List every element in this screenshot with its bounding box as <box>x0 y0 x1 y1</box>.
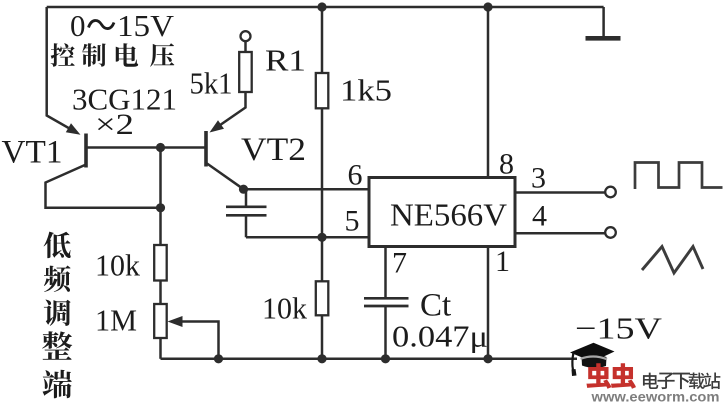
transistor VT2 <box>204 131 208 167</box>
wire 10k to 1M <box>159 281 162 305</box>
wire pin 8 from top rail <box>487 7 490 178</box>
label 控制电压 control voltage <box>51 43 75 66</box>
ground <box>602 7 605 36</box>
wire bottom rail -15V <box>161 358 578 361</box>
svg-text:4: 4 <box>532 200 547 233</box>
svg-text:0.047μ: 0.047μ <box>392 319 488 354</box>
potentiometer 1M <box>154 304 167 338</box>
svg-text:15V: 15V <box>117 8 175 43</box>
wire 1M wiper <box>182 322 219 359</box>
svg-text:NE566V: NE566V <box>390 196 507 232</box>
svg-text:1k5: 1k5 <box>340 73 392 108</box>
svg-text:1: 1 <box>495 245 510 278</box>
resistor 10k left <box>154 245 167 281</box>
resistor R1 5k1 <box>239 52 252 92</box>
triangle wave symbol <box>642 247 703 274</box>
wire top rail 0~15V <box>47 6 604 9</box>
svg-text:5k1: 5k1 <box>190 66 233 101</box>
wire 1k5 down across pin6 to pin5 and 10k <box>321 108 324 281</box>
wire pin 1 to rail <box>487 247 490 359</box>
wire R1 to VT2 emitter <box>217 92 246 128</box>
svg-text:VT2: VT2 <box>241 132 306 168</box>
node wiper to rail <box>214 354 223 363</box>
wire pin 7 to Ct <box>384 247 387 298</box>
wire base junction down <box>159 148 162 246</box>
node pin8 top rail <box>483 2 492 11</box>
resistor 10k right <box>316 281 329 315</box>
svg-text:8: 8 <box>499 148 514 181</box>
wire pin 3 output <box>515 191 605 194</box>
wire pin 4 output <box>515 232 605 235</box>
watermark 电子下载站 <box>643 373 658 389</box>
node collector junction <box>156 203 165 212</box>
wire VT1/VT2 base line <box>86 146 205 149</box>
wire mid vertical from top rail <box>321 7 324 73</box>
terminal circle pin4 <box>605 227 616 238</box>
capacitor between pin6 and pin5 lines <box>245 189 248 205</box>
terminal circle pin3 <box>605 187 616 198</box>
svg-text:5: 5 <box>345 205 360 238</box>
label 低频调整端 low-frequency adjust <box>44 232 71 258</box>
node VT2 emitter junction <box>239 185 248 194</box>
wire 10k right to rail <box>321 315 324 359</box>
resistor 1k5 <box>316 73 329 108</box>
wire 1M bottom to rail <box>159 338 162 359</box>
wire to pin 6 <box>244 188 370 191</box>
node pin1 rail <box>483 354 492 363</box>
svg-text:10k: 10k <box>262 291 307 326</box>
svg-text:×2: ×2 <box>95 108 134 141</box>
node top rail mid <box>317 2 326 11</box>
node 10k right rail <box>317 354 326 363</box>
svg-text:R1: R1 <box>265 43 306 78</box>
node base junction <box>156 143 165 152</box>
wire left drop to VT1 emitter <box>47 7 73 131</box>
square wave symbol <box>635 163 723 190</box>
svg-text:1M: 1M <box>95 303 137 338</box>
tilde of 0~15V <box>89 21 115 29</box>
node pin5 line junction <box>317 233 326 242</box>
op-amp/IC U1 NE566V box <box>369 178 515 247</box>
wire to pin 5 <box>246 236 369 239</box>
wire VT2 collector to node pin6 <box>207 164 244 190</box>
svg-text:www.eeworm.com: www.eeworm.com <box>590 390 719 402</box>
wire VT1 collector to lower node <box>46 165 161 208</box>
svg-text:7: 7 <box>392 247 407 280</box>
svg-text:3: 3 <box>531 162 546 195</box>
capacitor Ct <box>364 297 409 300</box>
watermark 虫虫 <box>586 363 611 388</box>
svg-text:VT1: VT1 <box>2 135 63 171</box>
svg-text:6: 6 <box>348 159 363 192</box>
wire terminal to R1 <box>244 42 247 53</box>
watermark graduation cap logo <box>570 343 615 376</box>
node Ct rail <box>381 354 390 363</box>
svg-text:−15V: −15V <box>575 311 663 346</box>
svg-text:10k: 10k <box>95 248 140 283</box>
terminal circle R1 input <box>241 31 251 41</box>
svg-text:0: 0 <box>70 8 86 43</box>
transistor VT1 <box>84 134 88 168</box>
